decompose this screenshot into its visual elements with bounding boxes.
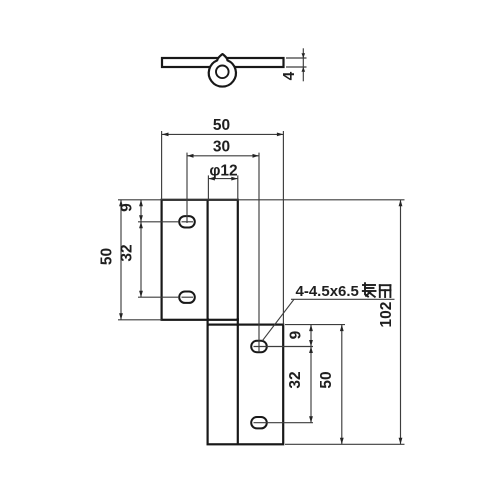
extension line top edge long xyxy=(118,199,405,201)
dimension 102: line and extension xyxy=(285,200,405,444)
leader line to oblong hole xyxy=(262,299,294,341)
knuckle joint gap right edge xyxy=(237,318,239,326)
dimension 32 right: line and extension xyxy=(254,347,314,423)
dimension 50 left: line and extension xyxy=(118,200,162,320)
dimension 50 width: line and extensions xyxy=(162,131,284,325)
lower leaf hole top xyxy=(251,341,267,352)
svg-text:4-4.5x6.5: 4-4.5x6.5 xyxy=(296,283,359,300)
dimension 30: line and extensions xyxy=(187,153,259,352)
upper leaf fold edge xyxy=(207,200,209,320)
dimension phi12: line and extensions xyxy=(208,175,237,199)
upper leaf hole top xyxy=(179,216,195,227)
knuckle joint gap left edge xyxy=(207,318,209,326)
dimension 32 left: line and extension xyxy=(138,222,179,297)
dimension 9 left: line and extension xyxy=(138,200,179,222)
knuckle outline with curl tip xyxy=(209,54,236,87)
upper leaf outline xyxy=(162,200,238,320)
svg-text:9: 9 xyxy=(288,330,305,339)
svg-text:φ12: φ12 xyxy=(209,163,237,180)
center tick upper hole top xyxy=(182,221,194,223)
lower leaf outline xyxy=(208,325,284,445)
label underline xyxy=(291,298,395,300)
dimension 9 right: line and extensions xyxy=(254,325,346,347)
lower leaf fold edge xyxy=(237,325,239,445)
svg-text:50: 50 xyxy=(318,371,335,388)
upper leaf hole bottom xyxy=(179,292,195,303)
dimension 50 right: line and extension xyxy=(340,325,344,445)
svg-text:32: 32 xyxy=(287,371,304,388)
svg-text:102: 102 xyxy=(378,302,395,328)
kanji chou (long) xyxy=(363,283,376,297)
lower leaf hole bottom xyxy=(251,417,267,428)
svg-text:50: 50 xyxy=(99,248,116,265)
dimension line 4 xyxy=(302,48,304,81)
svg-text:9: 9 xyxy=(119,203,136,212)
svg-text:32: 32 xyxy=(119,244,136,261)
svg-text:4: 4 xyxy=(281,71,298,80)
extension lines for thickness 4 xyxy=(286,58,307,67)
kanji en (circle) xyxy=(380,285,391,297)
knuckle pin hole circle xyxy=(216,66,229,79)
svg-text:30: 30 xyxy=(213,139,230,156)
center tick upper hole bottom xyxy=(182,296,194,298)
svg-text:50: 50 xyxy=(213,117,230,134)
arrowheads dim 4 xyxy=(302,53,306,72)
top view leaf bar xyxy=(162,58,284,67)
